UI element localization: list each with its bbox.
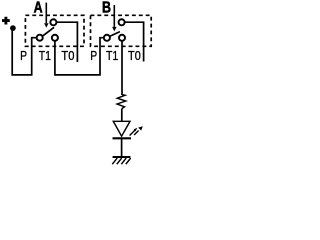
svg-text:T1: T1 <box>106 48 118 63</box>
svg-text:P: P <box>90 48 97 63</box>
svg-text:P: P <box>20 48 27 63</box>
svg-text:T0: T0 <box>61 48 74 63</box>
svg-text:T0: T0 <box>128 48 141 63</box>
svg-text:A: A <box>34 0 43 16</box>
svg-text:B: B <box>102 0 111 16</box>
svg-text:T1: T1 <box>39 48 51 63</box>
